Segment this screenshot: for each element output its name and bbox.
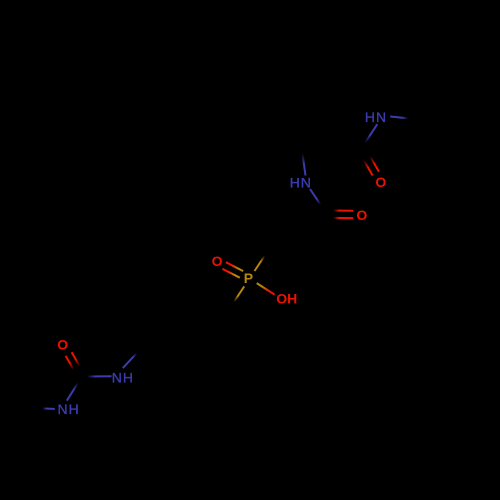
bond C3-N3 (horizontal) — [84, 375, 112, 377]
bond N2-C (up) — [301, 146, 305, 176]
double bond C1=O1 line b — [364, 146, 379, 172]
svg-text:NH: NH — [58, 401, 80, 417]
bond N2-C2 (down-right) — [310, 189, 327, 214]
bond N1-CH3 (top right, horizontal) — [390, 117, 412, 119]
bond P-C (down-left) — [229, 286, 245, 310]
svg-text:HN: HN — [365, 109, 387, 125]
svg-text:NH: NH — [112, 370, 134, 386]
double bond C1=O1 line a — [358, 150, 373, 176]
svg-text:O: O — [57, 336, 68, 352]
svg-text:HN: HN — [290, 175, 312, 191]
bond C3-N4 (down-left) — [67, 377, 82, 401]
bond N1-C1 (amide N to carbonyl) — [363, 124, 377, 146]
double bond P=O3 line b — [222, 269, 239, 278]
bond N3-C chain (up-right) — [123, 349, 141, 368]
bond N4-CH3 (left, horizontal) — [32, 407, 55, 410]
double bond O5=C3 (urea) line b — [72, 352, 85, 375]
svg-text:P: P — [244, 270, 253, 286]
double bond C2=O2 line a — [330, 210, 353, 212]
svg-text:O: O — [375, 174, 386, 190]
svg-text:O: O — [356, 207, 367, 223]
bond P-O4 (to OH) — [257, 283, 275, 295]
bond P-C (up-right) — [255, 248, 271, 271]
double bond O5=C3 (urea) line a — [66, 356, 79, 379]
double bond P=O3 line a — [226, 262, 243, 271]
double bond C2=O2 line b — [330, 217, 353, 219]
svg-text:O: O — [212, 253, 223, 269]
svg-text:OH: OH — [276, 290, 297, 306]
